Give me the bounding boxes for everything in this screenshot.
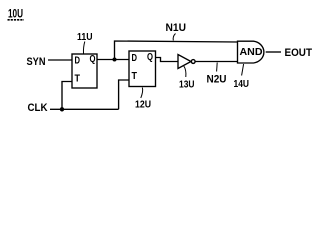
svg-text:10U: 10U (8, 7, 23, 21)
wire branch up to N1U net (115, 41, 238, 60)
node N1U label (166, 22, 187, 34)
wire CLK up to T of 11U (62, 82, 72, 110)
wire AND output to EOUT (266, 51, 281, 53)
junction CLK (60, 107, 64, 111)
leader line 12U to box (141, 88, 143, 99)
svg-text:T: T (75, 74, 81, 85)
junction node (113, 58, 117, 62)
svg-text:14U: 14U (234, 78, 250, 90)
svg-text:Q: Q (90, 54, 96, 65)
leader line 13U to inverter (184, 66, 186, 77)
flip-flop 12U box (129, 51, 156, 87)
pin label D of 12U (132, 53, 138, 64)
node CLK label (28, 102, 48, 114)
wire N2U inverter to AND gate (195, 61, 237, 63)
svg-text:N2U: N2U (207, 74, 227, 86)
flip-flop 11U box (72, 54, 97, 88)
node N2U label (207, 74, 227, 86)
pin label Q of 12U (147, 52, 153, 63)
wire SYN to FF1 D input (48, 59, 72, 61)
AND gate text (240, 46, 263, 58)
pin label Q of 11U (90, 54, 96, 65)
leader line N2U to wire (216, 63, 219, 72)
AND gate 14U body (238, 41, 264, 63)
svg-text:D: D (132, 53, 138, 64)
svg-text:EOUT: EOUT (285, 47, 313, 59)
label 13U (179, 79, 195, 91)
svg-text:CLK: CLK (28, 102, 48, 114)
wire Q of 12U to inverter 13U (156, 58, 179, 62)
wire CLK to junction (50, 108, 62, 110)
label 11U (77, 31, 93, 43)
node SYN label (27, 56, 46, 68)
pin label T of 11U (75, 74, 81, 85)
svg-text:13U: 13U (179, 79, 195, 91)
svg-text:11U: 11U (77, 31, 93, 43)
label 10U (8, 7, 23, 21)
svg-text:Q: Q (147, 52, 153, 63)
leader line 14U to AND gate (242, 64, 244, 76)
wire Q of 11U to D of 12U (97, 59, 129, 61)
svg-text:T: T (132, 71, 138, 82)
wire CLK up to T of 12U (119, 80, 129, 109)
pin label D of 11U (75, 56, 81, 67)
svg-text:AND: AND (240, 46, 263, 58)
leader line 11U to box (83, 42, 84, 54)
svg-text:N1U: N1U (166, 22, 187, 34)
svg-text:12U: 12U (135, 99, 151, 111)
inverter 13U triangle (178, 55, 191, 69)
label 14U (234, 78, 250, 90)
label 12U (135, 99, 151, 111)
pin label T of 12U (132, 71, 138, 82)
svg-text:SYN: SYN (27, 56, 46, 68)
leader line N1U to wire (173, 34, 175, 41)
svg-text:D: D (75, 56, 81, 67)
wire CLK bus to FF2 (62, 108, 119, 110)
underline of 10U (8, 19, 25, 21)
node EOUT label (285, 47, 313, 59)
inverter 13U bubble (191, 60, 195, 64)
